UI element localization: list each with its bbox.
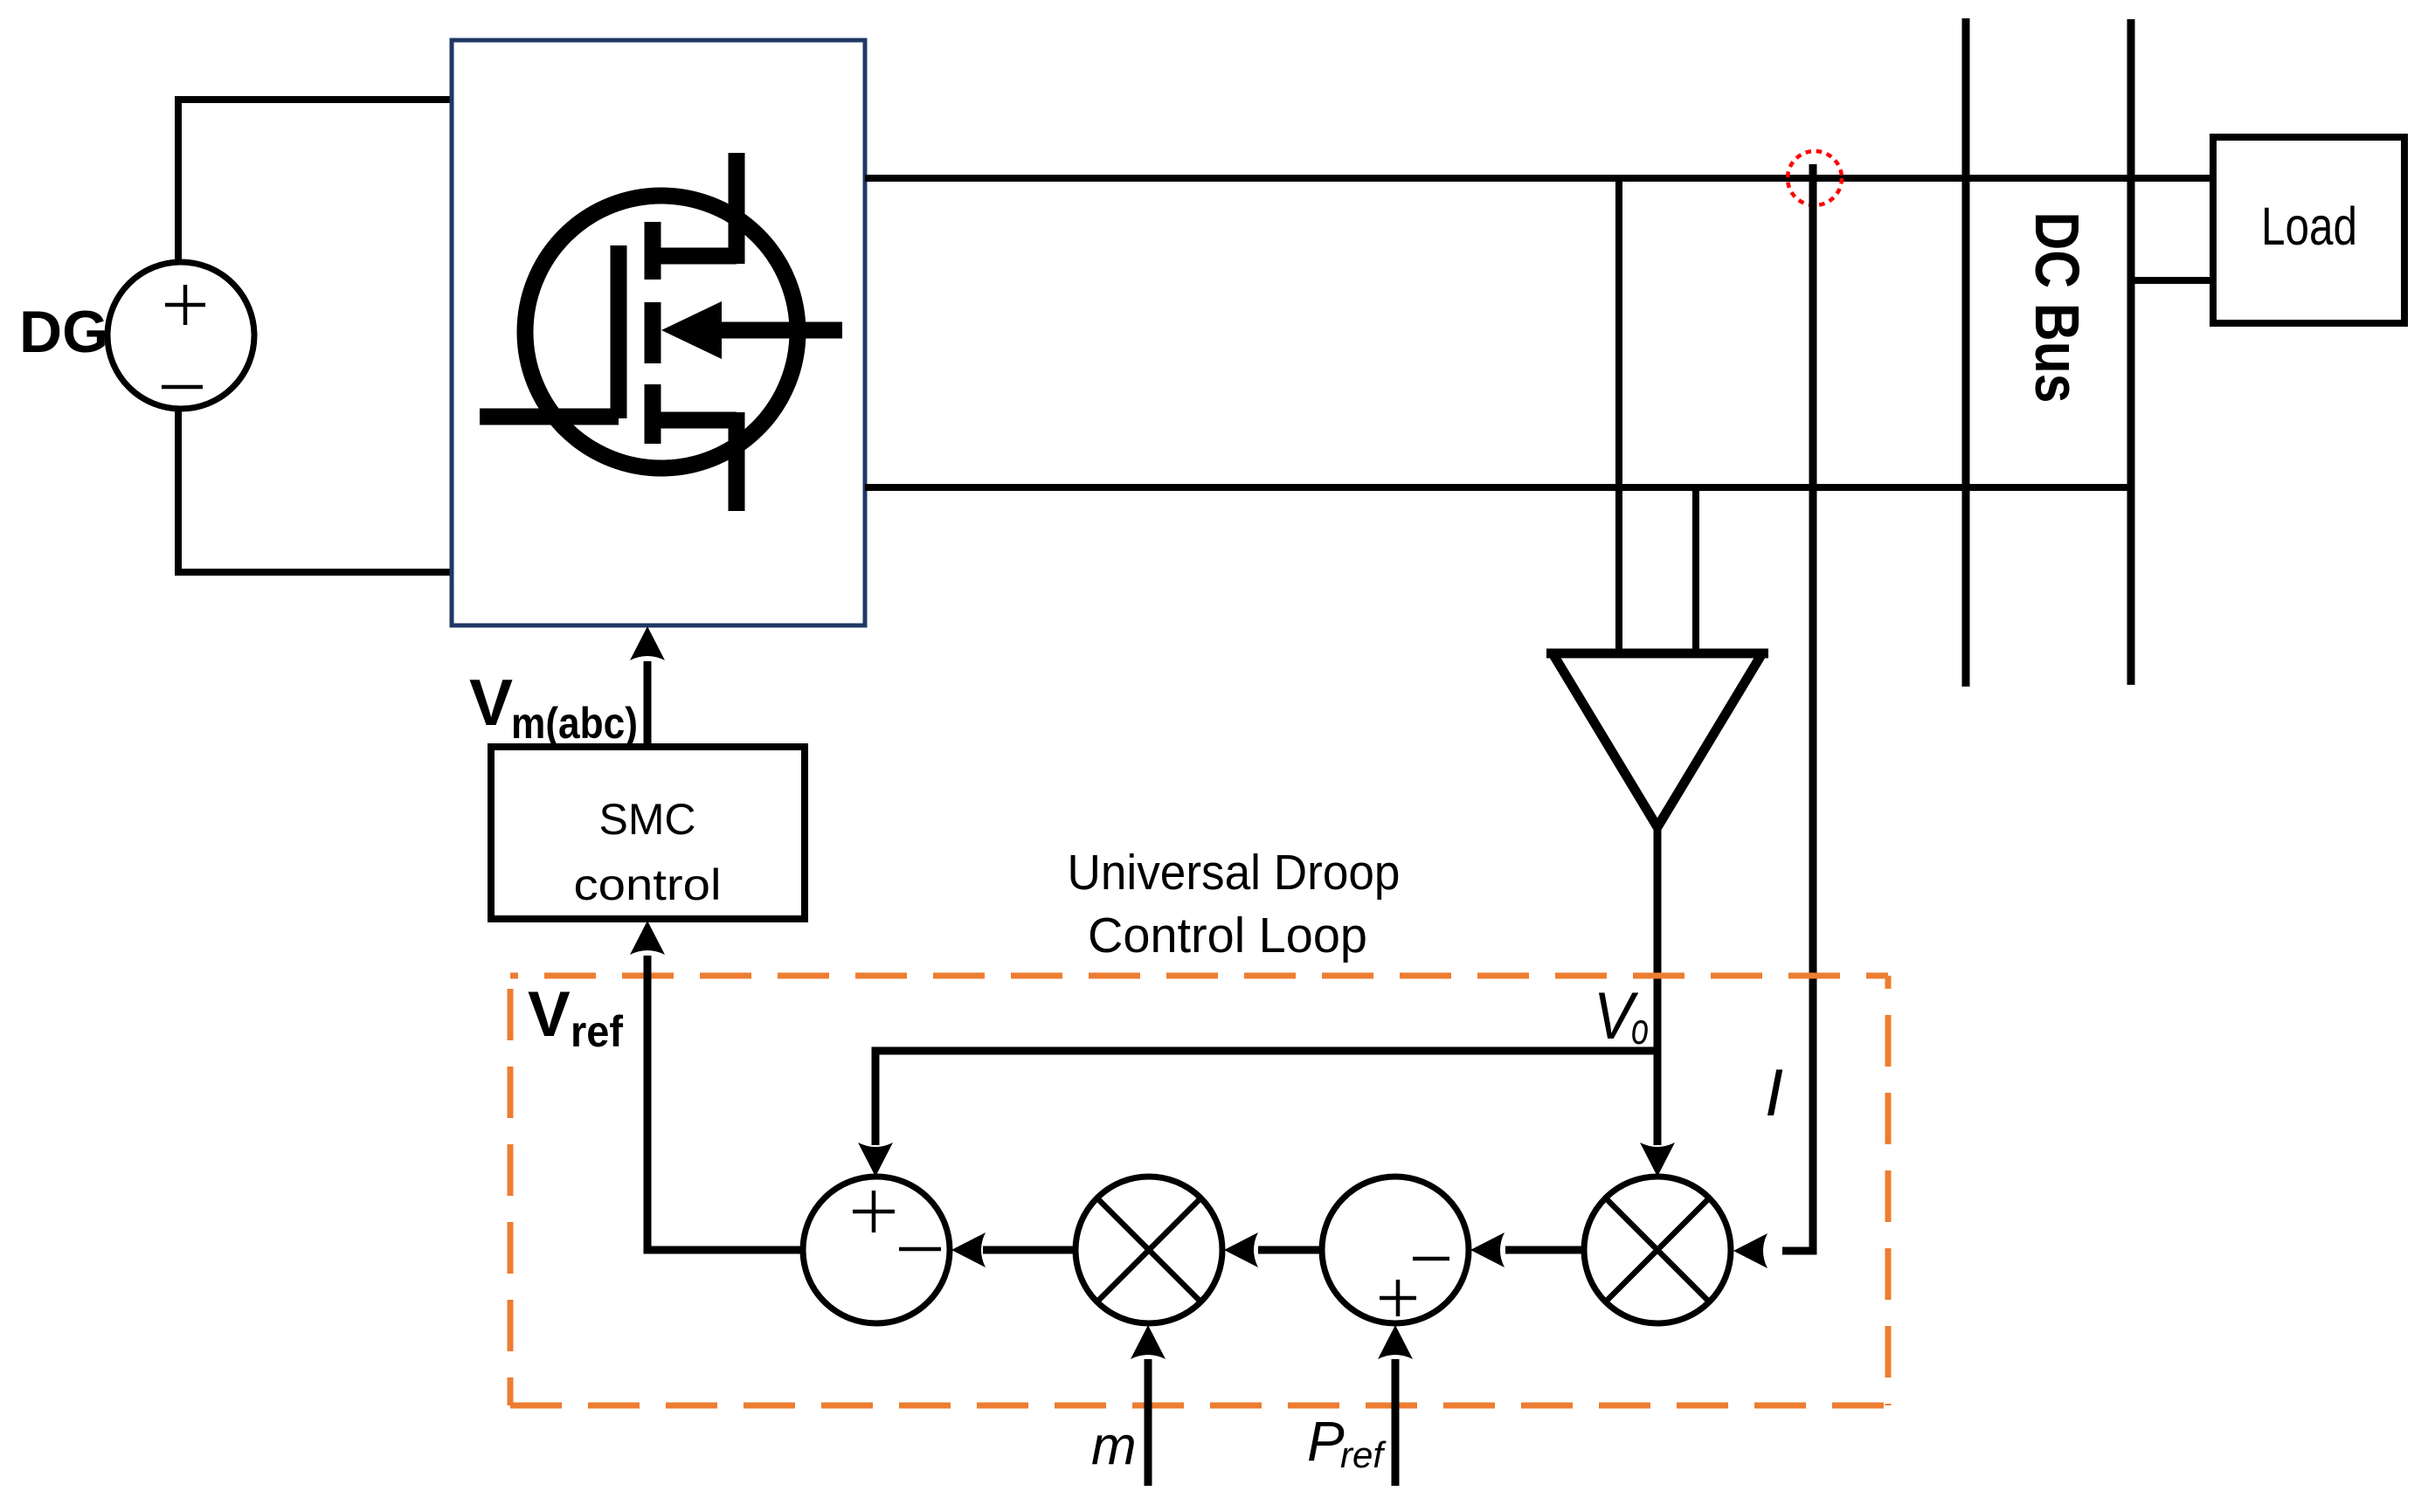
- svg-text:DG: DG: [19, 299, 108, 365]
- svg-text:DC Bus: DC Bus: [2022, 212, 2091, 404]
- svg-text:Universal Droop: Universal Droop: [1068, 845, 1401, 901]
- svg-text:V: V: [469, 666, 513, 739]
- svg-text:Control Loop: Control Loop: [1088, 908, 1367, 963]
- svg-text:control: control: [574, 860, 722, 909]
- svg-text:o: o: [1631, 1005, 1649, 1053]
- svg-text:m(abc): m(abc): [511, 699, 638, 748]
- svg-text:SMC: SMC: [599, 795, 696, 844]
- svg-text:ref: ref: [571, 1007, 623, 1056]
- svg-text:P: P: [1307, 1410, 1345, 1473]
- svg-text:Load: Load: [2261, 197, 2357, 256]
- svg-text:V: V: [528, 979, 571, 1050]
- svg-text:I: I: [1765, 1056, 1783, 1130]
- svg-text:m: m: [1091, 1416, 1137, 1476]
- svg-text:ref: ref: [1340, 1434, 1387, 1475]
